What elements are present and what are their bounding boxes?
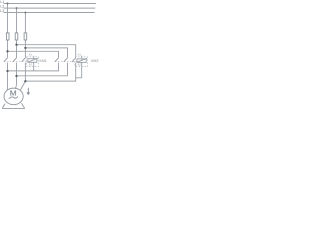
wire branch L2 to KM2 pole3 (17, 45, 76, 58)
net L3 rail (4, 12, 95, 14)
contact KM2 pole2 blade (64, 58, 68, 62)
junction dot net W (24, 80, 26, 82)
coil KM1 A1 stub (33, 56, 35, 59)
svg-text:KM1: KM1 (40, 59, 47, 63)
mechanical link KM2 contacts to coil (55, 61, 77, 63)
dashed enclosure KM2 (75, 57, 88, 67)
fuse F3 (24, 33, 27, 40)
net L1 rail (4, 3, 96, 5)
contact KM1 pole3 blade (22, 58, 26, 62)
arrow direction indicator (26, 88, 30, 95)
junction dot L2/V2 (16, 7, 18, 9)
dashed enclosure KM1 (27, 57, 39, 67)
junction dot net U (6, 70, 8, 72)
mechanical link KM1 contacts to coil (4, 61, 28, 63)
coil KM2 A2 return elbow (76, 62, 82, 77)
junction dot L1/V1 (7, 3, 9, 5)
wire branch L3 to KM2 pole2 (25, 48, 67, 58)
net W link to KM2 pole3 (25, 63, 75, 82)
svg-text:L3: L3 (0, 9, 4, 13)
net L2 rail (4, 7, 96, 9)
contact KM1 pole2 blade (13, 58, 17, 62)
junction dot branch L1 (6, 50, 8, 52)
wire below KM1 pole1 to motor U (7, 63, 9, 90)
coil KM2 diagonal (77, 58, 87, 62)
wire below KM1 pole2 (16, 63, 18, 86)
svg-text:A2: A2 (78, 63, 82, 67)
wire V3 slant into motor (20, 81, 25, 90)
wire phase drop V2 (16, 8, 18, 57)
fuse F2 (15, 33, 18, 40)
svg-text:A1: A1 (78, 53, 82, 57)
fuse F1 (6, 33, 9, 40)
junction dot L3/V3 (24, 12, 26, 14)
label motor 3~ tilde (9, 97, 18, 99)
svg-text:L2: L2 (0, 5, 4, 9)
wire phase drop V3 (24, 13, 26, 58)
coil KM1 diagonal (28, 58, 38, 62)
motor M1 circle (4, 88, 23, 105)
contact KM1 pole1 blade (4, 58, 8, 62)
svg-text:KM2: KM2 (91, 59, 98, 63)
wire branch L1 to KM2 pole1 (8, 51, 59, 57)
motor stand base (2, 103, 25, 108)
junction dot branch L2 (15, 44, 17, 46)
svg-text:A2: A2 (29, 62, 33, 66)
coil KM2 A1 stub (81, 56, 83, 59)
wire phase drop V1 (7, 4, 9, 58)
wire below KM1 pole3 (24, 63, 26, 82)
contact KM2 pole1 blade (55, 58, 59, 62)
contact KM2 pole3 blade (72, 58, 76, 62)
wire V2 slant into motor (15, 85, 16, 89)
net V link to KM2 pole2 (17, 63, 68, 76)
coil KM2 body (77, 59, 86, 63)
junction dot net V (15, 75, 17, 77)
net U link to KM2 pole1 (8, 63, 59, 71)
svg-text:A1: A1 (29, 53, 33, 57)
svg-text:L1: L1 (0, 0, 4, 4)
svg-text:M: M (10, 89, 17, 98)
coil KM1 body (28, 59, 37, 63)
coil KM1 A2 stub (33, 62, 35, 71)
junction dot branch L3 (24, 47, 26, 49)
